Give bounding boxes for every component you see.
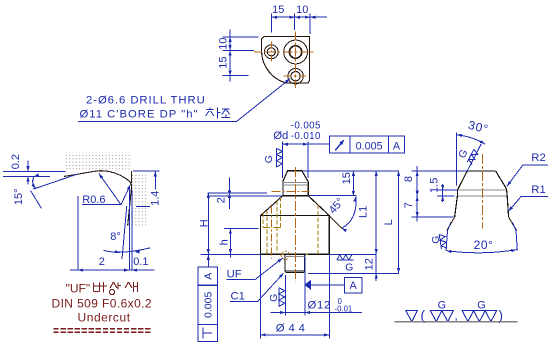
bottom face extension line left [201, 253, 261, 255]
note underline [78, 121, 237, 123]
dim 15deg slanted line [33, 174, 78, 189]
right detail right wall [507, 189, 509, 217]
note leader to bottom hole [237, 79, 291, 122]
svg-text:UF: UF [227, 268, 242, 280]
R0.6 leader to shoulder radius [121, 185, 131, 205]
right detail centerline [482, 154, 484, 229]
top view outline [262, 37, 310, 83]
centerline bottom hole horizontal [283, 75, 306, 77]
dim L1 and 12 dimension line [375, 171, 377, 281]
front view tip gray lines [283, 182, 308, 184]
svg-text:G: G [263, 155, 275, 163]
front view UF detail dashed circle [281, 251, 289, 259]
hidden line counterbore left outer [262, 213, 264, 227]
dim 45deg arc [342, 197, 356, 229]
dim 8-7 dimension line [416, 166, 418, 222]
svg-text:-0.010: -0.010 [291, 131, 321, 142]
svg-text:G: G [430, 236, 442, 244]
right detail mid extension line [437, 195, 455, 197]
G surface symbol on slope extension [467, 149, 479, 164]
perpendicularity symbol [202, 328, 204, 339]
label UF leader [226, 258, 282, 279]
svg-text:R0.6: R0.6 [82, 194, 105, 206]
svg-text:DIN 509 F0.6x0.2: DIN 509 F0.6x0.2 [52, 296, 152, 310]
svg-text:15: 15 [272, 4, 284, 16]
svg-text:2: 2 [99, 256, 105, 268]
svg-text:1.4: 1.4 [150, 191, 162, 206]
top view hole bottom counterbore [288, 69, 303, 84]
svg-text:A: A [393, 140, 401, 152]
front view tip cap outline [283, 171, 308, 182]
centerline left hole horizontal [254, 51, 281, 53]
front view undercut hidden ticks [281, 253, 283, 255]
right detail flare right dark [509, 217, 517, 230]
svg-text:G: G [268, 294, 280, 302]
dim 8deg arc [103, 248, 150, 252]
hidden line right hole [317, 204, 319, 254]
dim 15 dimension line right [352, 171, 354, 196]
svg-text:8: 8 [403, 176, 415, 182]
dim dia44 dimension line [261, 334, 330, 336]
centerline horizontal at tip [272, 190, 310, 192]
G surface symbol horizontal right [337, 255, 352, 260]
svg-text:Ø11 C'BORE DP "h": Ø11 C'BORE DP "h" [80, 109, 199, 121]
right detail top extension line left [412, 170, 468, 172]
centerline left hole vertical [270, 42, 272, 64]
svg-text:Ø44: Ø44 [276, 322, 309, 334]
svg-text:-0.01: -0.01 [335, 305, 353, 314]
dim 30deg vertical reference line [456, 132, 458, 185]
left slope extension for 30deg [467, 144, 481, 171]
centerline right hole horizontal [283, 51, 315, 53]
body bottom extension line right [329, 253, 376, 255]
runout symbol arrow [335, 142, 342, 151]
svg-text:(: ( [421, 308, 426, 323]
detail title equals row [53, 328, 58, 330]
svg-text:A: A [202, 273, 214, 280]
dim 10-15 vertical extension lines [222, 36, 258, 38]
front view stem undercut gray line [285, 255, 304, 257]
dim 15deg arc [33, 177, 36, 189]
centerline right+bottom holes vertical [295, 32, 297, 89]
svg-text:0.005: 0.005 [356, 140, 383, 152]
right detail gray line upper [457, 189, 506, 191]
dim 1.4 dimension line [154, 171, 156, 206]
dim 10-15 vertical dimension line [229, 30, 231, 82]
svg-text:Ø12: Ø12 [308, 300, 331, 312]
front view cylinder base edge [283, 195, 308, 197]
stem bottom extension line right [308, 272, 399, 274]
G surface symbol at 20deg flare [439, 234, 447, 249]
svg-text:7: 7 [403, 202, 415, 208]
surface note triple triangles [462, 311, 474, 322]
front view cone right slope [308, 196, 329, 216]
svg-text:L: L [383, 219, 395, 225]
right detail flare left blue extension [446, 222, 451, 250]
svg-text:8°: 8° [110, 231, 121, 243]
svg-text:C1: C1 [231, 291, 245, 303]
svg-text:15: 15 [341, 172, 353, 184]
stipple dots right band [132, 175, 148, 226]
surface reference line lower left [3, 175, 50, 177]
svg-text:10: 10 [218, 37, 230, 49]
svg-text:20°: 20° [474, 238, 494, 252]
dim 1.5 dimension line [442, 184, 444, 202]
right detail left slope [457, 171, 467, 190]
svg-text:15: 15 [218, 56, 230, 68]
svg-text:10: 10 [296, 4, 308, 16]
top view hole left counterbore [264, 45, 278, 59]
hidden line counterbore right outer [280, 197, 282, 227]
svg-text:15°: 15° [13, 188, 25, 205]
front view body rectangle [261, 216, 330, 255]
datum A box [344, 278, 361, 293]
note korean chamjo glyphs [206, 108, 231, 119]
svg-text:0.1: 0.1 [133, 256, 148, 268]
right detail right slope [496, 171, 507, 189]
label C1 leader [230, 273, 284, 302]
top view hole right drill [289, 46, 301, 58]
right detail gray line lower [457, 195, 507, 197]
centerline hole axis left [271, 206, 273, 259]
surface reference line upper left [3, 170, 66, 172]
label R2 leader [507, 165, 548, 186]
top face extension line right [302, 170, 399, 172]
svg-text:R1: R1 [531, 184, 545, 196]
front view stem [284, 254, 286, 271]
dim 15deg leader tail [31, 191, 42, 209]
label R0.6 underline [82, 204, 121, 206]
dim 2 left extension line [77, 196, 79, 270]
dim 2-0.1 dimension line [70, 269, 155, 271]
hidden line drill left-right [276, 201, 278, 254]
svg-text:Undercut: Undercut [78, 311, 131, 325]
svg-text:A: A [349, 280, 357, 292]
top view hole bottom drill [291, 72, 300, 81]
datum A triangle filled [304, 280, 311, 291]
dim L dimension line [398, 171, 400, 273]
stipple dots upper band [66, 152, 131, 169]
svg-text:L1: L1 [358, 206, 370, 218]
svg-text:2: 2 [216, 197, 228, 203]
dim h extension line [224, 228, 259, 230]
dim 15-10 horizontal dimension line [272, 16, 327, 18]
svg-text:12: 12 [363, 258, 375, 270]
svg-text:0.2: 0.2 [10, 154, 22, 169]
hidden line drill left-left [266, 210, 268, 254]
dim 1.5 extension line [437, 189, 457, 191]
cone slope extension for 45deg [329, 216, 342, 229]
R0.6 leader to crest [99, 173, 121, 204]
dim dia-d extension lines [282, 141, 284, 178]
right detail top edge [467, 170, 495, 172]
svg-text:1.5: 1.5 [428, 178, 440, 193]
right detail left wall [455, 190, 458, 217]
svg-text:): ) [499, 308, 504, 323]
right detail bottom extension line [412, 216, 454, 218]
dim 8deg vertical reference line [128, 186, 130, 270]
top view hole right counterbore [284, 40, 308, 64]
G surface symbol below body left [278, 288, 280, 307]
perpendicularity feature control frame rotated [198, 267, 218, 341]
svg-text:,: , [455, 311, 458, 323]
svg-text:0.005: 0.005 [202, 292, 214, 318]
top view hole left drill [267, 48, 275, 56]
svg-text:-0.005: -0.005 [291, 120, 321, 131]
dim 0.2 dimension line with arrows [27, 161, 29, 172]
dim 1.4 extension lines [133, 170, 160, 172]
front view stem chamfer bottom line [286, 271, 304, 273]
svg-text:G: G [345, 261, 353, 273]
dim H dimension line [207, 193, 209, 258]
svg-text:G: G [438, 300, 446, 312]
label R1 leader [508, 197, 548, 212]
right detail flare left dark [447, 217, 455, 230]
dim 2 extension lines at tip [207, 192, 267, 194]
svg-text:"UF": "UF" [66, 282, 91, 296]
dim dia44 extension lines [260, 254, 262, 338]
svg-text:h: h [218, 239, 230, 245]
surface note gray baseline [394, 321, 517, 323]
surface note double triangles [430, 311, 442, 322]
dim 2 dimension line [229, 178, 231, 209]
undercut shoulder wall segment [130, 171, 132, 183]
right detail flare right blue extension [512, 222, 517, 250]
G surface symbol at tip left [276, 148, 278, 167]
svg-text:H: H [198, 219, 210, 227]
dim text 1.4 rotated [150, 189, 161, 207]
dim 8deg slanted line [122, 206, 127, 259]
surface note first triangle [406, 311, 418, 322]
svg-text:2-Ø6.6 DRILL THRU: 2-Ø6.6 DRILL THRU [86, 94, 206, 106]
dim 15-10 horizontal extension lines [271, 14, 273, 33]
dim dia12 dimension line [271, 312, 314, 314]
dim h dimension line [229, 229, 231, 258]
datum A leader line [311, 284, 344, 286]
second vertical line 0.1 [131, 190, 133, 270]
hidden line counterbore bottom jog [263, 226, 270, 228]
svg-text:Ød: Ød [273, 130, 288, 142]
front view tip cylinder walls [282, 182, 284, 196]
front view tip top edge [288, 170, 302, 172]
dim 20deg arc [446, 250, 516, 253]
perpendicularity frame leader [207, 257, 209, 267]
svg-text:G: G [477, 300, 485, 312]
dim 30deg arc [457, 135, 485, 144]
undercut profile curve [64, 171, 132, 226]
svg-text:R2: R2 [531, 152, 545, 164]
centerline main axis vertical [294, 167, 296, 282]
dim dia-d dimension line [283, 143, 330, 145]
dim dia12 extension lines [284, 275, 286, 316]
runout feature control frame [330, 136, 405, 153]
front view cone left slope [261, 196, 283, 216]
